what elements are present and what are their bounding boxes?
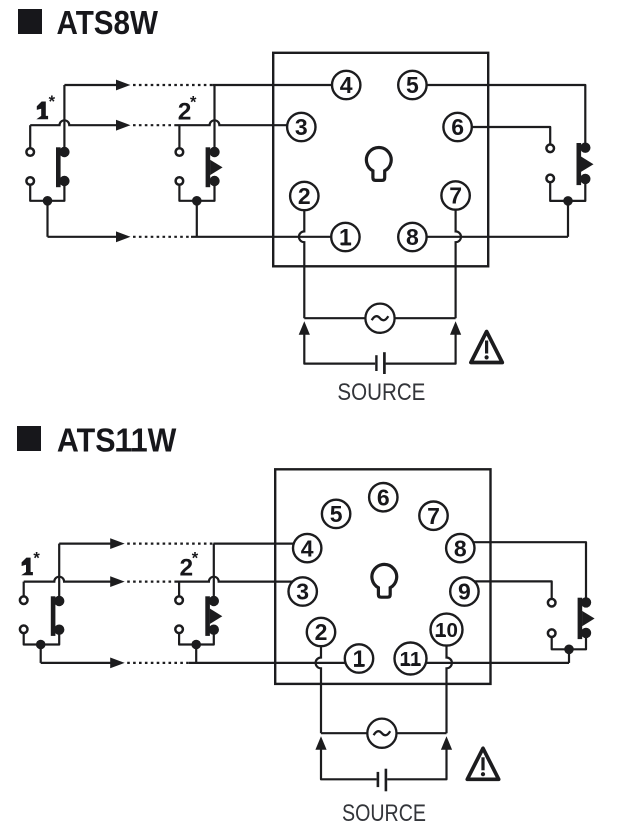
AC source symbol (ATS8W)	[365, 304, 394, 333]
wire: right switch junction drop to pin 11 wire (ATS11W)	[568, 649, 570, 663]
pin 2 (ATS8W socket)	[290, 182, 318, 210]
keyhole (ATS11W socket center)	[372, 564, 397, 597]
polarity arrow right (ATS11W source)	[441, 736, 452, 750]
wire: pin 9 to right switch upper terminal (ATS11W)	[464, 581, 551, 602]
battery symbol (ATS8W source)	[376, 352, 384, 374]
pin 3 (ATS8W socket)	[287, 113, 315, 141]
junction: switch 1 output node (ATS8W)	[43, 196, 53, 206]
svg-text:7: 7	[427, 503, 440, 529]
AC source symbol (ATS11W)	[367, 719, 396, 748]
wire: top distribution wire to pin 4 (ATS8W)	[64, 80, 346, 91]
pin 7 (ATS11W socket)	[419, 502, 447, 530]
label 1* (ATS11W switch 1)	[21, 549, 40, 575]
svg-text:8: 8	[454, 535, 467, 561]
wire: switch 2 lower terminal to junction (ATS8W)	[179, 181, 214, 201]
wire: pin 6 to right switch upper terminal (ATS8W)	[458, 127, 551, 148]
wire: top distribution wire to pin 4 (ATS11W)	[59, 538, 307, 549]
junction: right switch output node (ATS8W)	[563, 196, 573, 206]
wire: right switch lower terminal to junction (ATS8W)	[550, 178, 585, 201]
switch SW2 linked contacts with wiper arrow (ATS11W)	[175, 596, 222, 636]
wire: switch 2 lower terminal to junction (ATS11W)	[179, 629, 214, 644]
wire: right switch lower terminal to junction (ATS11W)	[552, 633, 586, 649]
label 2* (ATS11W switch 2)	[180, 549, 199, 581]
svg-text:11: 11	[400, 648, 422, 671]
svg-text:ATS11W: ATS11W	[57, 423, 177, 460]
svg-text:6: 6	[377, 484, 390, 510]
junction: switch 2 output node (ATS11W)	[191, 640, 201, 650]
wire: switch 2 common riser to top wire (ATS8W)	[213, 85, 215, 152]
polarity arrow right (ATS8W source)	[450, 321, 461, 335]
label 1* (ATS8W switch 1)	[36, 93, 55, 119]
wire: bottom distribution wire to pin 1 (ATS11W)	[41, 658, 359, 669]
wire: switch 2 junction drop (ATS8W)	[196, 201, 198, 237]
svg-text:3: 3	[296, 579, 309, 605]
svg-text:*: *	[192, 549, 199, 567]
wire: pin 7 drop to source line (ATS8W)	[456, 196, 461, 319]
junction: switch 1 output node (ATS11W)	[36, 640, 46, 650]
svg-text:SOURCE: SOURCE	[342, 800, 426, 827]
warning triangle (ATS8W)	[471, 332, 502, 363]
battery symbol (ATS11W source)	[378, 769, 386, 792]
svg-text:2: 2	[315, 619, 328, 645]
wire: DC source loop (ATS8W)	[304, 333, 455, 364]
socket outline (ATS8W 8-pin socket)	[273, 53, 488, 266]
pin 4 (ATS11W socket)	[293, 534, 321, 562]
svg-text:7: 7	[449, 183, 462, 209]
wire: switch 2 upper terminal stem (ATS8W)	[178, 125, 180, 152]
svg-text:*: *	[49, 93, 56, 111]
svg-text:SOURCE: SOURCE	[337, 379, 425, 406]
switch: right linked contacts with wiper arrow (ATS8W)	[546, 143, 593, 186]
wire: pin 8 to right rail (ATS11W)	[460, 542, 586, 602]
wire: pin 8 to right switch junction (ATS8W)	[412, 236, 568, 238]
ATS8W section title	[18, 5, 158, 42]
pin 6 (ATS8W socket)	[443, 113, 471, 141]
pin 8 (ATS8W socket)	[398, 223, 426, 251]
wire: switch 1 junction drop (ATS8W)	[46, 201, 48, 237]
svg-text:4: 4	[301, 535, 314, 561]
wire: AC source line (ATS11W)	[321, 732, 447, 734]
wire: pin 2 drop to source line (ATS11W)	[316, 632, 321, 733]
pin 3 (ATS11W socket)	[289, 577, 317, 605]
wire: switch 2 common riser to top wire (ATS11W)	[213, 544, 215, 601]
pin 7 (ATS8W socket)	[441, 181, 469, 209]
svg-text:2: 2	[298, 183, 311, 209]
junction: right switch output node (ATS11W)	[564, 645, 574, 655]
label SOURCE (ATS8W)	[337, 379, 425, 406]
wire: DC source loop (ATS11W)	[321, 748, 447, 779]
svg-text:6: 6	[451, 114, 464, 140]
keyhole (ATS8W socket center)	[366, 148, 391, 181]
wire: switch 1 lower terminal to junction (ATS11W)	[24, 629, 60, 644]
switch SW2 linked contacts with wiper arrow (ATS8W)	[176, 147, 223, 187]
pin 5 (ATS8W socket)	[398, 71, 426, 99]
wire: bottom distribution wire to pin 1 (ATS8W)	[48, 231, 346, 242]
wire: switch 1 upper terminal stem (ATS11W)	[23, 582, 25, 601]
svg-text:10: 10	[435, 619, 458, 642]
socket outline (ATS11W 11-pin socket)	[275, 469, 490, 684]
svg-text:*: *	[33, 549, 40, 567]
svg-text:*: *	[190, 93, 197, 111]
label SOURCE (ATS11W)	[342, 800, 426, 827]
pin 9 (ATS11W socket)	[450, 577, 478, 605]
svg-text:3: 3	[295, 114, 308, 140]
warning triangle (ATS11W)	[467, 748, 498, 779]
pin 6 (ATS11W socket)	[369, 483, 397, 511]
pin 2 (ATS11W socket)	[307, 618, 335, 646]
svg-text:8: 8	[406, 224, 419, 250]
wire: pin 5 to right rail (ATS8W)	[412, 85, 585, 148]
svg-text:5: 5	[330, 501, 343, 527]
junction: switch 2 output node (ATS8W)	[192, 196, 202, 206]
wire: pin 10 drop to source line (ATS11W)	[447, 630, 452, 734]
wire: switch 1 lower terminal to junction (ATS8W)	[30, 181, 64, 201]
polarity arrow left (ATS8W source)	[299, 321, 310, 335]
svg-text:ATS8W: ATS8W	[57, 5, 159, 42]
svg-text:1: 1	[339, 224, 352, 250]
svg-text:5: 5	[406, 72, 419, 98]
wire: switch 1 common riser to top wire (ATS8W)	[63, 85, 65, 152]
label 2* (ATS8W switch 2)	[178, 93, 197, 125]
switch SW1 linked contacts (ATS11W)	[20, 596, 65, 636]
pin 8 (ATS11W socket)	[446, 534, 474, 562]
switch: right linked contacts with wiper arrow (ATS11W)	[548, 597, 595, 639]
pin 1 (ATS8W socket)	[331, 223, 359, 251]
wire: switch 2 junction drop (ATS11W)	[195, 645, 197, 663]
wire: middle distribution wire to pin 3 (ATS8W)	[30, 120, 301, 131]
svg-text:4: 4	[340, 72, 353, 98]
wire: switch 1 common riser to top wire (ATS11W)	[58, 544, 60, 601]
pin 4 (ATS8W socket)	[332, 71, 360, 99]
pin 1 (ATS11W socket)	[345, 644, 373, 672]
wire: switch 1 junction drop (ATS11W)	[40, 645, 42, 663]
svg-text:1: 1	[353, 646, 366, 672]
wire: AC source line (ATS8W)	[304, 317, 455, 319]
ATS11W section title	[17, 423, 177, 460]
pin 5 (ATS11W socket)	[322, 500, 350, 528]
svg-text:9: 9	[458, 579, 471, 605]
wire: pin 11 to right switch junction (ATS11W)	[411, 662, 570, 664]
wire: switch 2 upper terminal stem (ATS11W)	[178, 582, 180, 601]
wire: right switch junction drop to pin 8 wire (ATS8W)	[567, 201, 569, 237]
wire: switch 1 upper terminal stem (ATS8W)	[29, 125, 31, 152]
wire: pin 2 drop to source line (ATS8W)	[299, 196, 304, 318]
pin 10 (ATS11W socket)	[431, 614, 463, 646]
pin 11 (ATS11W socket)	[395, 643, 427, 675]
wire: middle distribution wire to pin 3 (ATS11W)	[24, 576, 303, 587]
switch SW1 linked contacts (ATS8W)	[26, 147, 69, 187]
polarity arrow left (ATS11W source)	[315, 736, 326, 750]
